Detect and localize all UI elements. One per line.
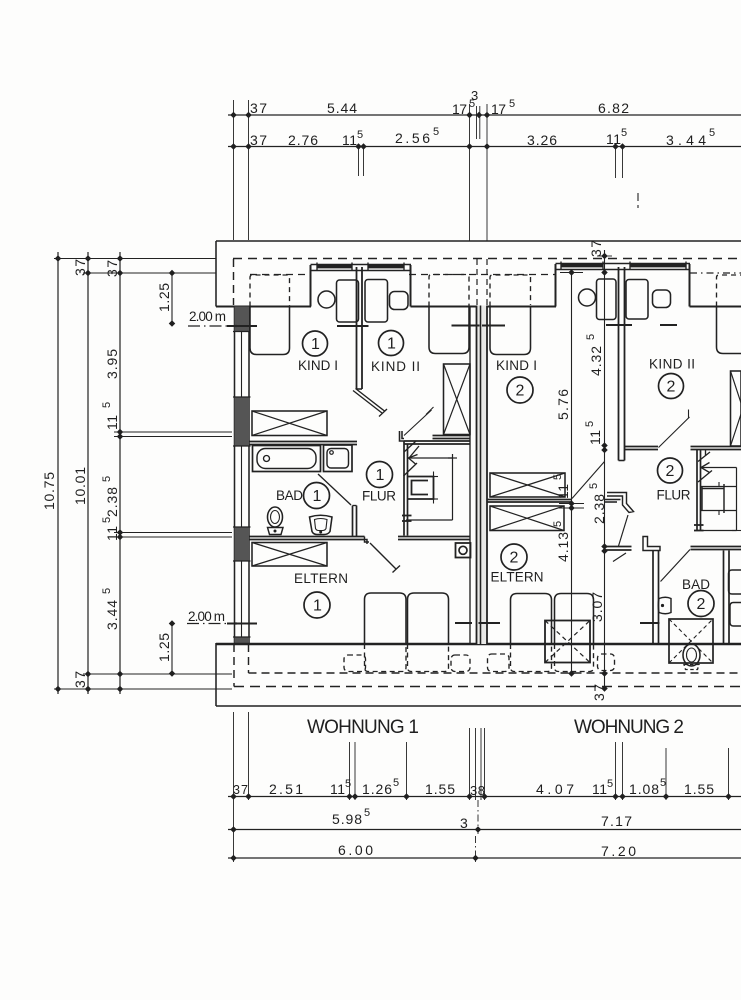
apt1 BAD east wall stub <box>353 506 357 537</box>
apt2 ELTERN wardrobe <box>490 506 564 531</box>
apt2 BAD door jamb <box>643 537 660 551</box>
apt2 KIND II desk <box>626 280 648 320</box>
svg-text:3.44: 3.44 <box>666 132 706 148</box>
svg-text:2.76: 2.76 <box>288 132 318 148</box>
apt2 stair arrow <box>698 449 737 482</box>
svg-text:5: 5 <box>584 421 596 427</box>
apt1 KIND II wardrobe <box>444 364 471 435</box>
apt1 KIND I bed <box>250 275 290 355</box>
apt1 BAD door leaf <box>318 474 351 505</box>
apt1 stair opening outline <box>406 454 457 520</box>
svg-text:5: 5 <box>621 127 627 139</box>
svg-text:4.32: 4.32 <box>588 346 604 376</box>
svg-text:5: 5 <box>101 402 113 408</box>
left dimension chain 10.75 <box>41 252 61 694</box>
apt1 KIND II room label <box>371 331 420 375</box>
svg-text:1: 1 <box>387 336 396 353</box>
svg-text:37: 37 <box>250 132 267 148</box>
apt1 chimney flue <box>408 472 438 504</box>
top exterior wall apt2 with windows <box>556 262 691 270</box>
svg-text:2: 2 <box>516 383 525 400</box>
svg-text:38: 38 <box>470 783 485 798</box>
apt2 internal dim chain A <box>552 269 584 677</box>
svg-text:5: 5 <box>101 588 113 594</box>
apt1 KIND I wardrobe <box>252 411 327 436</box>
step wall vertical x311 <box>310 265 312 307</box>
apt1 washbasin <box>324 445 353 472</box>
apt1 ELTERN bed 2 <box>408 593 449 644</box>
apt1 ELTERN door jamb <box>365 537 370 545</box>
top dims extension lines <box>234 100 639 241</box>
svg-text:FLUR: FLUR <box>657 488 691 503</box>
apt1 KIND II bed <box>429 275 469 354</box>
svg-text:5: 5 <box>345 778 351 790</box>
top dimension chain row 2 <box>228 126 741 150</box>
svg-text:5: 5 <box>607 778 613 790</box>
apt2 chimney flue <box>701 482 737 515</box>
bottom dimension chain row 1 <box>228 777 741 800</box>
svg-text:3.07: 3.07 <box>589 592 605 622</box>
overhang dashed line mid segment <box>409 274 555 276</box>
apt2 ELTERN nightstand left dashed <box>488 654 510 672</box>
apt2 BAD room label <box>682 577 714 617</box>
apt1 KIND II door swing <box>404 407 434 436</box>
overhang dashed vertical bottom-left inner <box>248 644 250 673</box>
step wall vertical x690 <box>689 264 691 307</box>
svg-text:7.17: 7.17 <box>601 813 632 829</box>
top dimension chain row 1 <box>228 88 741 118</box>
building outline bottom-left vertical <box>215 643 217 706</box>
apt1 KIND I door leaf <box>353 389 387 417</box>
svg-text:4.07: 4.07 <box>536 781 574 797</box>
svg-text:WOHNUNG 1: WOHNUNG 1 <box>307 717 419 738</box>
svg-text:17: 17 <box>491 101 506 117</box>
svg-text:5: 5 <box>393 777 399 789</box>
svg-text:11: 11 <box>606 131 621 147</box>
setback wall line left section <box>216 306 311 308</box>
overhang dashed line mid-left segment <box>250 274 310 276</box>
building outline top <box>216 240 741 242</box>
svg-text:FLUR: FLUR <box>362 489 396 504</box>
svg-text:5: 5 <box>709 127 715 139</box>
apt1 bidet <box>310 515 333 534</box>
svg-text:5: 5 <box>588 483 600 489</box>
apt1 BAD-ELTERN wall west part <box>249 537 365 540</box>
setback wall line right section <box>690 306 741 308</box>
svg-text:2: 2 <box>697 596 706 613</box>
svg-text:37: 37 <box>591 684 607 701</box>
apt1 bathtub <box>253 446 321 472</box>
svg-text:17: 17 <box>452 101 467 117</box>
apt1 stair hall west wall <box>404 441 408 536</box>
apt2 FLUR room label <box>657 458 691 503</box>
svg-text:ELTERN: ELTERN <box>294 571 348 586</box>
party wall dashed continuation above <box>477 259 487 305</box>
apt2 stair hall west wall <box>697 450 701 531</box>
svg-text:11: 11 <box>555 484 571 499</box>
apt2 KIND II side bed at image edge <box>717 275 741 354</box>
apt2 KIND II wardrobe at image edge <box>731 371 741 446</box>
apt1 ELTERN wardrobe <box>252 543 327 567</box>
apt2 KIND II chair <box>653 290 671 308</box>
apt2 ELTERN door wall stub <box>605 499 621 501</box>
top exterior wall apt1 with windows <box>311 263 412 271</box>
svg-text:3.44: 3.44 <box>104 600 120 630</box>
apt2 ELTERN room label <box>491 544 544 585</box>
svg-text:3.95: 3.95 <box>104 349 120 379</box>
svg-text:11: 11 <box>104 415 120 430</box>
apt1 ELTERN nightstand right dashed <box>451 655 470 672</box>
apt1 wall between KIND I and KIND II <box>357 267 363 389</box>
apt2 BAD small WC oval <box>658 597 671 614</box>
apt2 ELTERN bed 2 <box>555 594 594 645</box>
svg-text:11: 11 <box>587 430 603 445</box>
left exterior wall with windows <box>233 306 251 645</box>
apt1 KIND II desk <box>365 280 388 323</box>
svg-text:11: 11 <box>330 781 345 797</box>
svg-text:2.00 m: 2.00 m <box>188 609 225 624</box>
apt2 KIND II bottom wall west <box>625 447 659 450</box>
svg-text:WOHNUNG 2: WOHNUNG 2 <box>574 717 684 738</box>
apt1 WC <box>268 507 284 535</box>
apt2 BAD top wall east <box>691 547 741 550</box>
apt1 electric box <box>456 543 471 558</box>
apt1 stair hall door jamb <box>400 431 405 441</box>
apt1 BAD top wall <box>249 442 357 445</box>
svg-text:5.76: 5.76 <box>555 389 571 420</box>
svg-text:37: 37 <box>72 671 88 688</box>
svg-text:5: 5 <box>357 129 363 141</box>
svg-text:1: 1 <box>313 598 322 615</box>
apt2 stair wall window tick <box>694 525 704 531</box>
apt2 ELTERN nightstand right dashed <box>598 654 615 671</box>
left dimension chain detailed <box>101 252 123 694</box>
apt2 shower <box>669 619 713 663</box>
apt2 KIND II bottom wall east <box>691 447 741 450</box>
apt1 stair arrow <box>404 441 420 476</box>
roof overhang dashed line top <box>233 258 741 260</box>
svg-text:11: 11 <box>104 526 120 541</box>
apt1 ELTERN bed 1 <box>365 593 407 644</box>
apt1 ELTERN top wall east part <box>398 537 470 540</box>
svg-text:5: 5 <box>364 807 370 819</box>
apt2 KIND I door swing <box>572 462 605 499</box>
svg-text:1.08: 1.08 <box>629 781 659 797</box>
apt1 BAD room label <box>276 483 330 509</box>
svg-text:2.51: 2.51 <box>269 781 303 797</box>
party wall between apartments <box>470 306 487 645</box>
svg-text:1.25: 1.25 <box>156 283 172 312</box>
svg-text:37: 37 <box>233 783 248 797</box>
2.00m headroom line top <box>188 309 677 327</box>
apt2 wall between KIND I and KIND II <box>619 267 625 461</box>
step wall vertical x556 <box>555 264 557 307</box>
svg-text:1.26: 1.26 <box>362 781 392 797</box>
svg-text:2.38: 2.38 <box>591 494 607 524</box>
apt2 BAD west wall <box>653 551 659 645</box>
apt1 KIND I desk <box>337 280 359 322</box>
roof overhang dashed vertical top-left <box>233 259 235 305</box>
svg-text:5: 5 <box>660 777 666 789</box>
svg-text:5: 5 <box>509 98 515 110</box>
svg-text:2.38: 2.38 <box>104 487 120 517</box>
apt2 KIND II room label <box>649 357 695 399</box>
bottom eaves wall line <box>216 643 741 645</box>
apt1 FLUR room label <box>362 462 396 504</box>
apt2 KIND I room label <box>496 358 537 403</box>
svg-text:5: 5 <box>552 474 564 480</box>
svg-text:5: 5 <box>585 334 597 340</box>
svg-text:37: 37 <box>104 260 120 277</box>
svg-text:3: 3 <box>460 815 468 831</box>
setback wall line middle section <box>411 306 557 308</box>
apt2 BAD door leaf <box>661 550 691 582</box>
svg-text:37: 37 <box>588 240 604 257</box>
apt2 ELTERN roof window box <box>545 621 590 663</box>
apt1 stair wall window tick <box>402 516 412 522</box>
svg-text:1.25: 1.25 <box>156 633 172 662</box>
svg-text:KIND I: KIND I <box>496 358 537 373</box>
apt1 ELTERN nightstand left dashed <box>344 655 366 672</box>
apt2 ELTERN door jamb <box>607 493 634 513</box>
overhang dashed vertical bottom-left outer <box>233 644 235 687</box>
apt2 KIND II door swing <box>659 410 690 448</box>
svg-text:37: 37 <box>250 100 267 116</box>
svg-text:10.01: 10.01 <box>72 467 88 505</box>
left dimension chain 37/10.01/37 <box>72 252 91 694</box>
svg-text:5: 5 <box>552 521 564 527</box>
svg-text:10.75: 10.75 <box>41 472 57 510</box>
roof overhang dashed bottom line inner <box>249 672 741 674</box>
svg-text:2.56: 2.56 <box>395 130 430 146</box>
apt1 KIND I chair <box>318 291 335 308</box>
apt2 BAD WC <box>683 644 700 670</box>
apt1 ELTERN room label <box>294 571 348 618</box>
building outline bottom <box>216 705 741 707</box>
svg-text:1.55: 1.55 <box>684 781 714 797</box>
svg-text:3.26: 3.26 <box>527 132 557 148</box>
svg-text:7.20: 7.20 <box>601 843 636 859</box>
apt1 KIND I room label <box>298 331 338 373</box>
svg-text:BAD: BAD <box>682 577 710 592</box>
svg-text:3: 3 <box>471 88 478 103</box>
apt2 KIND I chair <box>579 289 596 306</box>
apt2 KIND I desk <box>597 279 617 320</box>
apt2 KIND I bed <box>490 275 531 355</box>
overhang dash-dot line right segment <box>690 272 741 274</box>
small dim 1.25 top-left <box>156 270 175 327</box>
svg-text:2: 2 <box>510 550 519 567</box>
svg-text:2: 2 <box>667 379 676 396</box>
apt2 KIND I - ELTERN wall <box>487 500 571 503</box>
svg-text:5.44: 5.44 <box>327 100 357 116</box>
apt2 FLUR-ELTERN wall piece <box>604 547 632 562</box>
svg-text:2: 2 <box>666 463 675 480</box>
apt2 KIND I wardrobe <box>490 473 565 497</box>
svg-text:KIND II: KIND II <box>649 357 695 372</box>
bottom dimension chain row 3 <box>228 842 741 861</box>
apt2 stair opening outline <box>703 468 741 531</box>
building outline top-left vertical <box>215 241 217 307</box>
bottom dims extension lines <box>234 712 729 862</box>
svg-text:5.98: 5.98 <box>332 811 362 827</box>
svg-text:5: 5 <box>101 476 113 482</box>
svg-text:BAD: BAD <box>276 488 303 503</box>
apt1 ELTERN door leaf <box>370 543 400 573</box>
apt2 ELTERN bed 1 <box>511 594 552 645</box>
step wall vertical x411 <box>410 265 412 307</box>
svg-text:ELTERN: ELTERN <box>491 570 544 585</box>
svg-text:1: 1 <box>313 488 322 505</box>
svg-text:KIND I: KIND I <box>298 358 338 373</box>
left dims extension lines <box>54 259 232 690</box>
svg-text:6.00: 6.00 <box>338 842 373 858</box>
2.00m headroom line bottom <box>187 609 660 625</box>
svg-text:11: 11 <box>592 781 607 797</box>
bottom dimension chain row 2 <box>228 807 741 833</box>
apt2 BAD east wall <box>724 551 730 645</box>
apt1 stair hall top wall <box>404 441 470 444</box>
apt2 internal dim chain B <box>584 240 612 701</box>
svg-text:1: 1 <box>311 336 320 353</box>
svg-text:4.13: 4.13 <box>555 532 571 562</box>
apt2 ELTERN door leaf <box>619 515 629 546</box>
svg-text:6.82: 6.82 <box>598 100 629 116</box>
svg-text:11: 11 <box>342 132 357 148</box>
svg-text:5: 5 <box>433 126 439 138</box>
svg-text:5: 5 <box>101 517 113 523</box>
svg-text:1.55: 1.55 <box>425 781 455 797</box>
apt1 KIND II chair <box>390 292 409 310</box>
svg-text:1: 1 <box>376 467 385 484</box>
svg-text:2.00 m: 2.00 m <box>189 309 226 324</box>
apt2 fixtures at image edge <box>729 570 741 626</box>
svg-text:KIND II: KIND II <box>371 359 420 374</box>
roof overhang dashed bottom line outer <box>234 686 741 688</box>
small dim 1.25 bottom-left <box>156 620 175 677</box>
apt1 KIND II bottom wall <box>433 436 471 439</box>
